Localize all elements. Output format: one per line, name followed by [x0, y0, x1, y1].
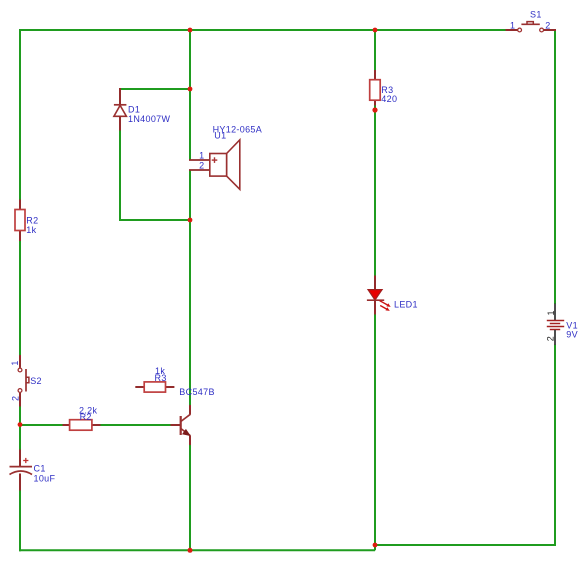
svg-text:1N4007W: 1N4007W [128, 114, 171, 124]
collector diagonal [181, 414, 191, 421]
wire bottom jog vertical [374, 545, 376, 550]
resistor R3 420 [370, 70, 398, 106]
svg-text:R2: R2 [80, 412, 92, 422]
transistor Q1 BC547B [171, 387, 215, 445]
buzzer U1 HY12-065A [189, 124, 262, 189]
resistor R2 1k [15, 200, 38, 242]
LED1 [367, 276, 418, 315]
svg-text:R3: R3 [155, 373, 167, 383]
base stub [171, 424, 181, 426]
wire right vertical lower [554, 345, 556, 547]
wire middle vertical (speaker pin2 to collector) [189, 170, 191, 406]
wire bottom left horizontal [19, 549, 375, 551]
junction node (20,425) [18, 422, 23, 427]
svg-text:C1: C1 [34, 464, 46, 474]
pin 2 stub [189, 169, 210, 171]
svg-text:2: 2 [199, 161, 204, 171]
resistor R2 2.2k (horizontal) [63, 405, 101, 430]
pin 1 stub [189, 159, 210, 161]
wire LED to bottom [374, 314, 376, 546]
speaker body [210, 154, 227, 177]
svg-text:1k: 1k [26, 225, 36, 235]
wire D1 branch bottom horizontal [120, 219, 191, 221]
wire right vertical upper [554, 29, 556, 304]
wire left vertical mid (R2 to S2) [19, 240, 21, 356]
pushbutton S2 [10, 355, 42, 407]
svg-text:420: 420 [381, 94, 397, 104]
svg-text:1: 1 [10, 360, 20, 365]
wire bottom right horizontal [375, 544, 556, 546]
led arrow 2 [380, 306, 386, 310]
wire base horizontal right [100, 424, 171, 426]
svg-text:S2: S2 [30, 376, 42, 386]
wire middle vertical top (node to speaker pin1) [189, 29, 191, 160]
svg-text:U1: U1 [214, 131, 226, 141]
svg-text:S1: S1 [530, 10, 542, 20]
junction node (375,30) [373, 28, 378, 33]
emitter arrow [182, 429, 191, 436]
wire left vertical upper [19, 29, 21, 201]
capacitor C1 10uF [10, 450, 56, 491]
emitter diagonal [181, 429, 191, 436]
wire top horizontal [19, 29, 506, 31]
led arrow 1 [380, 301, 388, 305]
svg-text:2: 2 [546, 336, 556, 341]
diode D1 1N4007W [114, 88, 171, 131]
junction node (190,220) [188, 218, 193, 223]
wire R3 branch top [374, 29, 376, 71]
collector stub [189, 405, 191, 415]
junction node (190,89) [188, 87, 193, 92]
pushbutton S1 [506, 10, 557, 32]
wire left vertical lower (C1 to bottom) [19, 490, 21, 551]
speaker cone [227, 140, 240, 190]
resistor R3 1k (floating) [135, 366, 174, 392]
plus mark [212, 159, 218, 161]
base bar [180, 416, 182, 435]
svg-text:2: 2 [545, 21, 550, 31]
wire left vertical (S2 to C1) [19, 406, 21, 451]
svg-text:1: 1 [510, 21, 515, 31]
wire middle vertical lower (emitter to bottom) [189, 444, 191, 551]
svg-text:1: 1 [546, 310, 556, 315]
svg-text:R2: R2 [26, 216, 38, 226]
junction node (375,110) [372, 107, 377, 112]
junction node (190,550) [188, 548, 193, 553]
svg-text:BC547B: BC547B [179, 387, 215, 397]
emitter stub [189, 436, 191, 446]
junction node (375,545) [373, 543, 378, 548]
wire R3 to LED [374, 105, 376, 277]
wire base horizontal left [19, 424, 63, 426]
plus mark [23, 460, 28, 462]
svg-text:1: 1 [199, 151, 204, 161]
wire D1 branch top horizontal [119, 88, 191, 90]
junction node (190,30) [188, 28, 193, 33]
battery V1 9V [546, 304, 578, 346]
svg-text:10uF: 10uF [34, 474, 56, 484]
svg-text:9V: 9V [566, 329, 578, 339]
svg-text:2: 2 [11, 396, 21, 401]
svg-text:D1: D1 [128, 105, 140, 115]
wire D1 branch vertical [119, 130, 121, 222]
svg-text:LED1: LED1 [394, 300, 418, 310]
